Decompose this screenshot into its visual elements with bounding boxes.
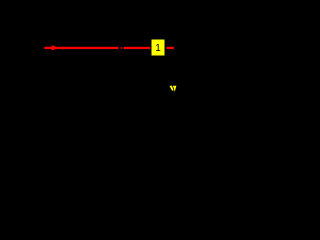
node label box 1 xyxy=(152,40,165,56)
wire stub after node box xyxy=(166,47,174,49)
cursor icon left stroke xyxy=(169,86,173,91)
wire segment left xyxy=(44,47,118,49)
current direction arrow xyxy=(52,45,59,50)
cursor icon right wedge xyxy=(173,86,177,92)
svg-text:1: 1 xyxy=(155,43,161,54)
wire segment right xyxy=(124,47,151,49)
junction dot (dim) xyxy=(121,47,123,49)
